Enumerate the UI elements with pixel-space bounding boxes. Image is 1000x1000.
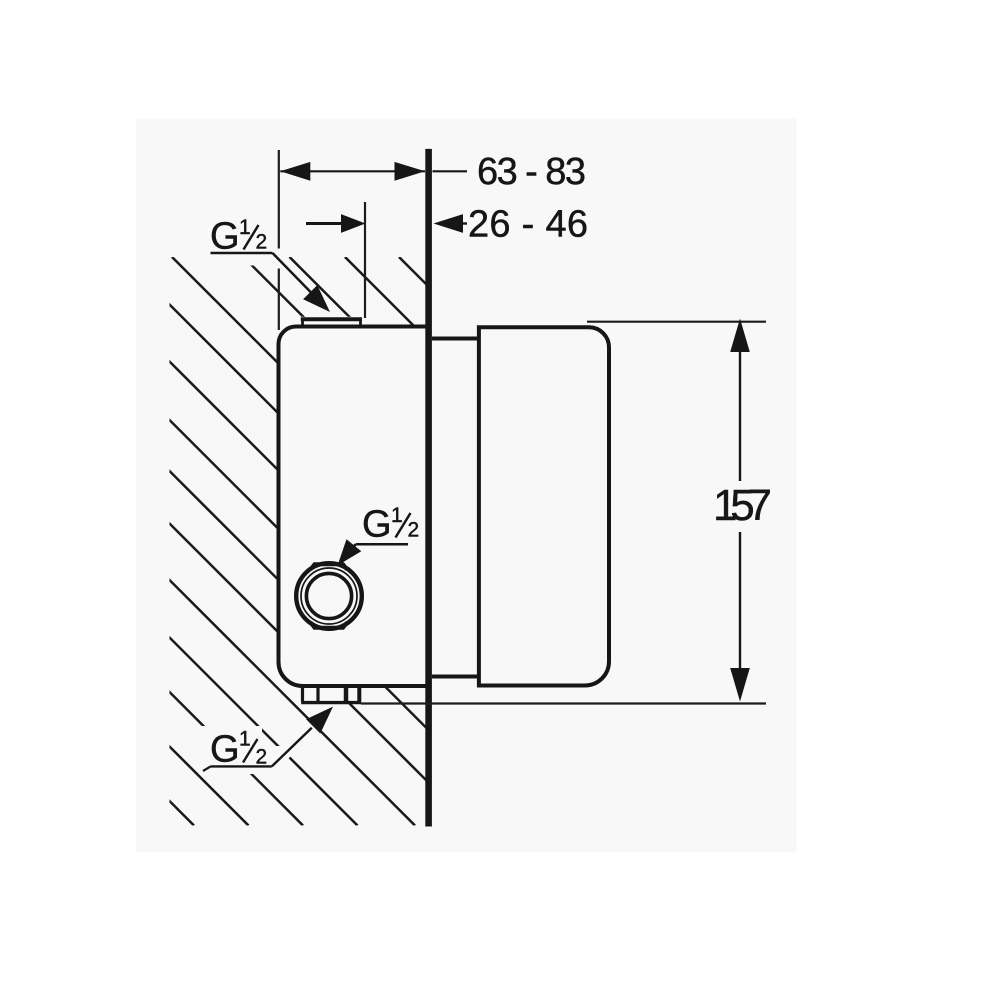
G half connection circle: inner circle [306,573,351,618]
hatch clearing: halo around bottom G half label [202,726,262,774]
top G half label [210,216,273,258]
dimension 157: extension lines [587,321,766,323]
escutcheon plate [432,339,479,677]
svg-text:G: G [210,729,240,771]
wall surface line [425,149,432,827]
middle G half label [356,504,419,546]
hatch clearing: bottom nut interior [301,686,362,704]
svg-text:26 - 46: 26 - 46 [468,204,588,246]
drawing canvas background [136,119,797,853]
G half connection circle: middle thin ring [301,568,357,624]
extension line of mounting flange [364,202,366,318]
bottom G half label [203,728,272,772]
connection circle top tab [311,564,348,569]
svg-text:1: 1 [391,504,403,527]
extension line of body left face [278,150,280,249]
hatch clearing: valve body interior [279,327,431,687]
top G half leader and arrow [273,253,313,294]
dimension 157: vertical line and arrows [730,319,750,702]
thermostat cap [479,327,609,685]
hatch clearing: halo along bottom leader line [272,707,333,767]
dimension 26-46: line and arrows [306,214,467,233]
svg-text:G: G [362,504,392,546]
svg-text:2: 2 [256,745,268,768]
wall hatching [0,257,968,826]
svg-text:1: 1 [239,216,251,239]
middle G half leader and arrow [348,544,356,552]
hatch clearing: top flange interior [301,317,361,328]
bottom G half leader and arrow [272,728,312,767]
bottom nut outline [301,688,361,703]
svg-text:63 - 83: 63 - 83 [477,151,586,193]
hatch clearing: halo along top leader line [273,253,331,312]
svg-text:G: G [210,216,240,258]
svg-text:1: 1 [239,728,251,751]
G half connection circle: outer ring [296,563,362,629]
connection circle bottom tab [311,623,348,628]
svg-text:2: 2 [408,519,420,542]
hatch clearing: halo under top G half label [190,252,262,266]
top flange outline [303,319,361,326]
svg-text:157: 157 [713,481,772,530]
valve body outline [279,327,431,687]
svg-text:2: 2 [256,231,268,254]
dimension 63-83: line and arrows [280,162,467,181]
